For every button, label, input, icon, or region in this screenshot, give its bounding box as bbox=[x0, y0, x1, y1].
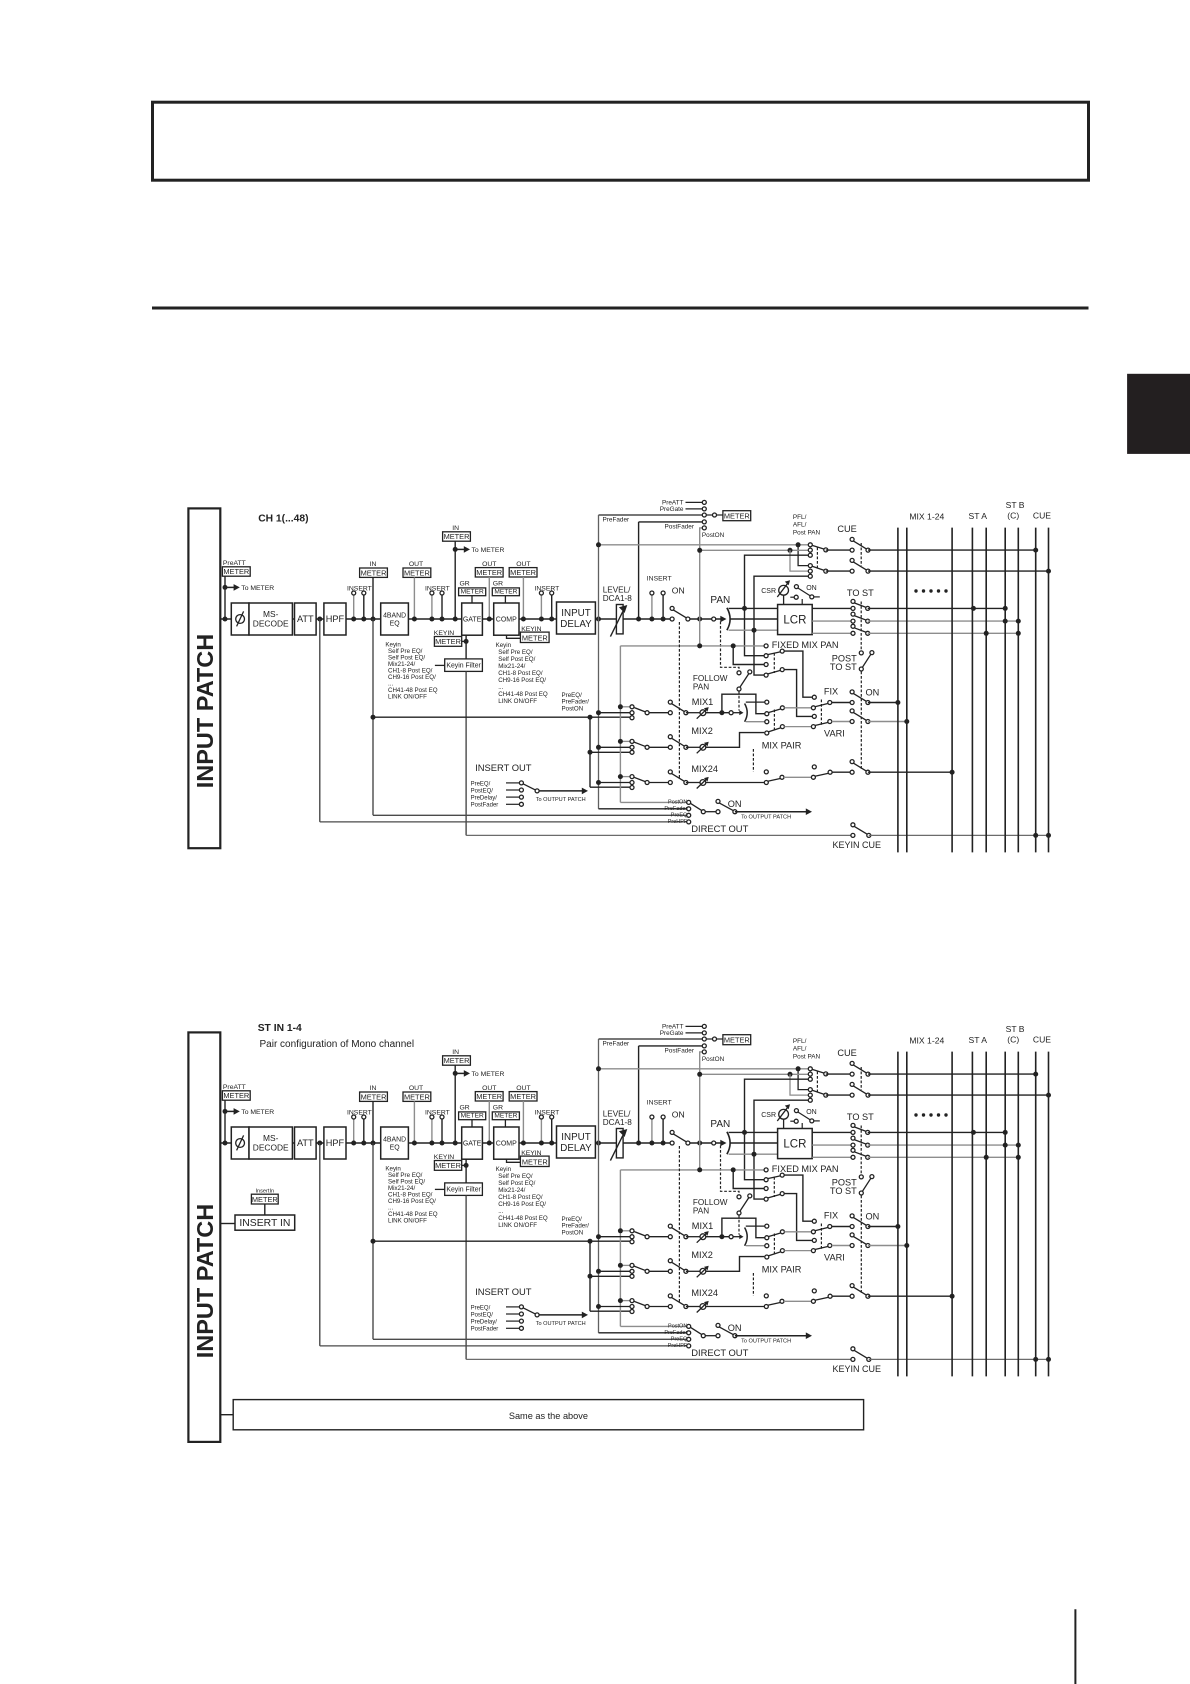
terminal fixed mix pan bbox=[764, 1168, 768, 1172]
meter box GR 1 bbox=[459, 588, 486, 596]
wire selector to meter bbox=[717, 514, 723, 516]
svg-text:PAN: PAN bbox=[693, 1206, 709, 1215]
gang dashed fmp bbox=[773, 653, 775, 673]
wire pregate lead bbox=[686, 1032, 703, 1034]
svg-text:MIX1: MIX1 bbox=[692, 1221, 713, 1231]
switch to-st C bbox=[854, 1140, 867, 1145]
svg-text:(C): (C) bbox=[1007, 1035, 1019, 1045]
svg-text:...: ... bbox=[498, 1208, 503, 1215]
svg-text:Self Pre EQ/: Self Pre EQ/ bbox=[498, 649, 533, 656]
junction comp-out bbox=[521, 617, 526, 622]
switch ON main bbox=[673, 610, 687, 618]
insert out leads bbox=[506, 782, 519, 784]
block HPF bbox=[324, 603, 346, 635]
block MS-DECODE bbox=[249, 603, 292, 635]
switch post-to-st bbox=[862, 1178, 871, 1191]
svg-text:To OUTPUT PATCH: To OUTPUT PATCH bbox=[741, 1339, 791, 1345]
gang dashed to-st bbox=[860, 1126, 862, 1175]
wire poston gray vert bbox=[619, 1170, 621, 1327]
svg-text:To OUTPUT PATCH: To OUTPUT PATCH bbox=[536, 1321, 586, 1327]
svg-text:ST B: ST B bbox=[1006, 500, 1025, 510]
svg-text:PreHPF: PreHPF bbox=[668, 1343, 688, 1349]
meter box OUT 1 bbox=[403, 568, 431, 577]
wire lcr on stub bbox=[801, 599, 803, 605]
selector insert out bbox=[523, 784, 536, 791]
block INPUT DELAY bbox=[557, 602, 596, 634]
switch CUE L bbox=[853, 1065, 867, 1073]
svg-text:CH1-8 Post EQ/: CH1-8 Post EQ/ bbox=[498, 1194, 543, 1201]
svg-text:ST IN 1-4: ST IN 1-4 bbox=[258, 1023, 302, 1034]
switch to-st R bbox=[854, 1152, 867, 1157]
selector MIX24 source bbox=[634, 777, 646, 782]
wire MIX24 to on bbox=[649, 782, 670, 784]
svg-text:IN: IN bbox=[452, 525, 459, 532]
svg-text:ON: ON bbox=[728, 1323, 742, 1333]
csr knob bbox=[779, 585, 789, 595]
meter box selector bbox=[723, 1035, 751, 1045]
switch to-st C bbox=[854, 616, 867, 621]
switch mix2 bus on bbox=[853, 1236, 867, 1244]
svg-text:PostON: PostON bbox=[668, 1323, 687, 1329]
wire gr2 stub bbox=[504, 596, 506, 603]
wire PreATT meter tap bbox=[224, 1100, 226, 1143]
wire mix2 bus out bbox=[868, 1245, 907, 1247]
switch mix follow B bbox=[768, 728, 781, 732]
wire mix1 to pan bbox=[706, 712, 729, 714]
gang dashed to-st bbox=[860, 602, 862, 651]
wire MIX2 to knob bbox=[686, 1270, 700, 1272]
svg-text:PAN: PAN bbox=[693, 682, 709, 691]
wire mix24 varifeed bbox=[784, 1300, 811, 1302]
wire MIX2 to on bbox=[649, 1270, 670, 1272]
svg-text:4BAND: 4BAND bbox=[383, 1137, 406, 1144]
svg-text:To OUTPUT PATCH: To OUTPUT PATCH bbox=[536, 797, 586, 803]
wire mix1 bypass bbox=[722, 694, 765, 714]
svg-text:IN: IN bbox=[370, 561, 377, 568]
svg-text:ON: ON bbox=[672, 1110, 685, 1120]
junction eq-out bbox=[412, 1141, 417, 1146]
wire MIX1 top feed bbox=[620, 1230, 630, 1232]
junction stBR bbox=[1016, 619, 1021, 624]
insert pair 4 bbox=[651, 1119, 653, 1143]
svg-text:FIXED MIX PAN: FIXED MIX PAN bbox=[772, 1164, 839, 1174]
wire preeq vert main bbox=[372, 619, 374, 815]
selector cue L bbox=[812, 545, 825, 549]
svg-text:DELAY: DELAY bbox=[560, 619, 592, 630]
wire PreATT meter tap bbox=[224, 576, 226, 619]
insert pair 3 bbox=[540, 595, 542, 619]
box same as above bbox=[233, 1400, 863, 1430]
wire poston feed direct bbox=[620, 1325, 686, 1327]
wire mix pan out L bbox=[746, 701, 765, 703]
svg-text:KEYIN CUE: KEYIN CUE bbox=[833, 840, 882, 850]
svg-text:INSERT: INSERT bbox=[347, 585, 372, 592]
block 4BAND EQ bbox=[381, 1127, 409, 1159]
switch MIX1 on-link bbox=[672, 704, 685, 712]
wire AFL line bbox=[700, 1073, 811, 1075]
switch ON main bbox=[673, 1134, 687, 1142]
junction stBR2 bbox=[1016, 631, 1021, 636]
junction preeq/mix2 bbox=[588, 1274, 593, 1279]
wire preeq feed mix24 bbox=[590, 1310, 630, 1312]
insert pair 1 bbox=[353, 1119, 355, 1143]
junction pan R tap bbox=[752, 628, 757, 633]
junction pfl drop bbox=[796, 542, 801, 547]
svg-text:CH41-48 Post EQ: CH41-48 Post EQ bbox=[498, 691, 548, 698]
wire prefader vert bbox=[598, 515, 600, 809]
svg-text:PostON: PostON bbox=[562, 705, 584, 712]
svg-text:MIX24: MIX24 bbox=[691, 764, 718, 774]
gang dashed mix pair bbox=[752, 1273, 754, 1296]
meter box OUT 3 bbox=[509, 1092, 537, 1101]
wire fmp B route bbox=[784, 670, 812, 717]
pan input circle bbox=[712, 617, 716, 621]
junction afl drop bbox=[788, 1072, 793, 1077]
wire preeq line direct bbox=[373, 1338, 687, 1340]
wire MIX1 mid feed bbox=[599, 1236, 631, 1238]
pan arc bbox=[727, 608, 730, 630]
wire preeq vert branch bbox=[589, 717, 591, 787]
svg-text:METER: METER bbox=[223, 567, 249, 576]
svg-text:IN: IN bbox=[370, 1085, 377, 1092]
wire prefader vert bbox=[598, 1039, 600, 1333]
bus lines MIX/ST/CUE bbox=[897, 1052, 899, 1377]
junction stBL2 bbox=[1003, 619, 1008, 624]
junction gate-out bbox=[487, 1141, 492, 1146]
insert out leads bbox=[506, 1306, 519, 1308]
svg-text:ON: ON bbox=[866, 687, 880, 697]
wire lcr out C bbox=[812, 1144, 853, 1146]
input patch box (ST IN) bbox=[188, 1032, 220, 1442]
block COMP bbox=[494, 1127, 519, 1159]
svg-text:ON: ON bbox=[728, 799, 742, 809]
block LCR bbox=[778, 1129, 813, 1159]
wire cueL out bbox=[868, 549, 1036, 551]
wire OUT1 meter tap bbox=[413, 1101, 415, 1143]
wire preeq line direct bbox=[373, 814, 687, 816]
junction mix1 bus bbox=[895, 700, 900, 705]
switch keyin cue bbox=[854, 826, 868, 834]
wire pan out L bbox=[729, 607, 778, 609]
svg-text:INSERT: INSERT bbox=[425, 1109, 450, 1116]
switch follow pan bbox=[740, 674, 749, 688]
svg-text:PreEQ/: PreEQ/ bbox=[471, 781, 491, 787]
junction stBR bbox=[1016, 1143, 1021, 1148]
wire MIX24 to on bbox=[649, 1306, 670, 1308]
meter box GR 1 bbox=[459, 1112, 486, 1120]
junction fmp/poston bbox=[697, 643, 702, 648]
gang dashed mix follow bbox=[773, 1234, 775, 1256]
switch CUE R bbox=[853, 1086, 867, 1094]
svg-text:INSERT: INSERT bbox=[535, 585, 560, 592]
svg-text:4BAND: 4BAND bbox=[383, 613, 406, 620]
svg-text:PreDelay/: PreDelay/ bbox=[471, 1320, 498, 1326]
svg-text:To METER: To METER bbox=[241, 1109, 274, 1116]
wire preatt lead bbox=[686, 1025, 703, 1027]
switch CUE L bbox=[853, 541, 867, 549]
wire mix pan out L bbox=[746, 1225, 765, 1227]
block MS-DECODE bbox=[249, 1127, 292, 1159]
wire direct to on bbox=[705, 1335, 716, 1337]
insert pair 2 bbox=[431, 595, 433, 619]
svg-text:METER: METER bbox=[361, 1092, 387, 1101]
top rounded box bbox=[153, 102, 1089, 180]
svg-text:METER: METER bbox=[522, 633, 548, 642]
insert pair 2 bbox=[431, 1119, 433, 1143]
svg-text:METER: METER bbox=[223, 1091, 249, 1100]
wire MIX2 top feed bbox=[620, 740, 630, 742]
wire OUT3 meter tap bbox=[522, 577, 524, 619]
wire OUT2 meter tap bbox=[488, 577, 490, 619]
switch MIX2 on-link bbox=[672, 738, 685, 746]
gang dashed cue sw bbox=[860, 1067, 862, 1090]
wire IN1 meter tap bbox=[372, 577, 374, 619]
junction gate-out bbox=[487, 617, 492, 622]
switch fmp B bbox=[768, 1194, 781, 1198]
junction to-meter bbox=[223, 585, 228, 590]
svg-text:LCR: LCR bbox=[783, 1139, 806, 1151]
svg-text:METER: METER bbox=[444, 1056, 470, 1065]
wire MIX24 to knob bbox=[686, 1306, 700, 1308]
junction pre-fader bbox=[596, 1141, 601, 1146]
wire prehpf line bbox=[320, 1345, 687, 1347]
wire MIX1 to on bbox=[649, 1236, 670, 1238]
wire preeq line mix1 bbox=[373, 716, 630, 718]
junction cueR bus bbox=[1046, 1093, 1051, 1098]
wire mix2 to on bbox=[832, 1245, 852, 1247]
wire keyin cue line bbox=[466, 834, 853, 836]
wire pan out C bbox=[730, 1142, 778, 1144]
junction preeq/mix1 bbox=[371, 1239, 376, 1244]
junction fmp/poston bbox=[697, 1167, 702, 1172]
svg-text:PostEQ/: PostEQ/ bbox=[471, 789, 494, 795]
svg-text:TO ST: TO ST bbox=[830, 662, 857, 672]
meter box OUT 3 bbox=[509, 568, 537, 577]
meter box KEYIN 1 bbox=[434, 637, 461, 647]
junction pan L tap bbox=[742, 1130, 747, 1135]
block LCR bbox=[778, 605, 813, 635]
junction post-on bbox=[697, 617, 702, 622]
arrow insert out bbox=[539, 1314, 582, 1316]
svg-text:PreHPF: PreHPF bbox=[668, 819, 688, 825]
wire postpan L feed bbox=[745, 1079, 811, 1180]
knob MIX24 level bbox=[700, 780, 706, 786]
wire post-fader tap bbox=[638, 1046, 640, 1143]
svg-text:To METER: To METER bbox=[472, 547, 505, 554]
wire mix24 to switch bbox=[706, 1306, 765, 1308]
wire to-st R out bbox=[868, 1156, 1019, 1158]
wire preeq feed mix24 bbox=[590, 786, 630, 788]
junction stAR bbox=[984, 631, 989, 636]
selector insert out bbox=[523, 1308, 536, 1315]
wire mix1 bus out bbox=[868, 702, 898, 704]
wire MIX2 to on bbox=[649, 746, 670, 748]
svg-text:METER: METER bbox=[724, 512, 750, 521]
wire gr2 stub bbox=[504, 1120, 506, 1127]
svg-text:HPF: HPF bbox=[326, 1138, 345, 1148]
svg-text:METER: METER bbox=[494, 589, 517, 596]
wire post-on tap bbox=[700, 528, 705, 646]
selector cue R bbox=[812, 566, 825, 570]
junction mix1 split bbox=[719, 710, 724, 715]
mix1 pan circle bbox=[729, 1235, 733, 1239]
svg-text:PostEQ/: PostEQ/ bbox=[471, 1313, 494, 1319]
junction main/preatt bbox=[223, 617, 228, 622]
svg-text:INSERT OUT: INSERT OUT bbox=[475, 762, 532, 773]
wire lcr on stub bbox=[801, 1123, 803, 1129]
meter box IN 1 bbox=[360, 1092, 388, 1101]
svg-text:METER: METER bbox=[522, 1157, 548, 1166]
svg-text:ON: ON bbox=[806, 585, 817, 592]
wire fmp drop 2 bbox=[733, 1170, 764, 1189]
mix pan arc bbox=[745, 1228, 748, 1246]
wire varifeed 2 bbox=[784, 1250, 811, 1252]
wire prehpf line bbox=[320, 821, 687, 823]
horizontal rule bbox=[152, 307, 1089, 310]
wire mix1 to on bbox=[832, 702, 852, 704]
wire MIX2 top feed bbox=[620, 1264, 630, 1266]
wire mix2 bus out bbox=[868, 721, 907, 723]
svg-text:EQ: EQ bbox=[390, 1144, 401, 1151]
svg-text:To METER: To METER bbox=[472, 1071, 505, 1078]
wire MIX1 top feed bbox=[620, 706, 630, 708]
meter box IN 2 bbox=[443, 532, 471, 541]
svg-text:PreGate: PreGate bbox=[660, 506, 684, 513]
wire prefader line bbox=[599, 514, 703, 516]
fader bbox=[616, 605, 623, 634]
selector MIX2 source bbox=[634, 742, 646, 747]
knob MIX2 level bbox=[700, 744, 706, 750]
arrow into pan bbox=[716, 618, 721, 620]
gang dashed mix on bbox=[678, 1146, 680, 1303]
wire postfader line bbox=[639, 1045, 703, 1047]
switch mix1 bus on bbox=[853, 693, 867, 701]
wire keyin cue out bbox=[869, 1358, 1049, 1360]
insert pair 3 bbox=[540, 1119, 542, 1143]
switch mix follow A bbox=[768, 709, 781, 713]
svg-text:LINK ON/OFF: LINK ON/OFF bbox=[498, 1222, 537, 1229]
wire afl drop bbox=[790, 550, 808, 571]
wire pan out C bbox=[730, 618, 778, 620]
wire MIX1 to knob bbox=[686, 712, 700, 714]
block ATT bbox=[295, 603, 317, 635]
svg-text:DCA1-8: DCA1-8 bbox=[603, 1118, 633, 1127]
svg-text:MIX1: MIX1 bbox=[692, 697, 713, 707]
svg-text:Post PAN: Post PAN bbox=[793, 1053, 821, 1060]
svg-text:CUE: CUE bbox=[837, 524, 856, 534]
wire csr stub bbox=[783, 1119, 785, 1128]
svg-text:METER: METER bbox=[461, 1113, 484, 1120]
meter box IN 1 bbox=[360, 568, 388, 577]
wire MIX1 to knob bbox=[686, 1236, 700, 1238]
svg-text:PFL/: PFL/ bbox=[793, 514, 807, 521]
wire selector to meter bbox=[717, 1038, 723, 1040]
svg-text:MIX PAIR: MIX PAIR bbox=[762, 1264, 802, 1274]
wire prehpf vert bbox=[319, 1143, 321, 1346]
svg-text:INSERT OUT: INSERT OUT bbox=[475, 1286, 532, 1297]
junction to-meter 2 bbox=[453, 547, 458, 552]
gang dashed below post-to-st bbox=[860, 1196, 862, 1294]
svg-text:MIX 1-24: MIX 1-24 bbox=[909, 512, 944, 522]
wire gr1 stub bbox=[471, 596, 473, 603]
junction pre-fader bbox=[596, 617, 601, 622]
svg-text:PreFader: PreFader bbox=[664, 806, 687, 812]
svg-text:GR: GR bbox=[460, 1105, 470, 1112]
wire lcr out R bbox=[812, 1156, 853, 1158]
svg-text:METER: METER bbox=[510, 568, 536, 577]
block 4BAND EQ bbox=[381, 603, 409, 635]
wire pregate lead bbox=[686, 508, 703, 510]
switch direct on bbox=[719, 1327, 734, 1335]
svg-text:PreFader: PreFader bbox=[603, 516, 631, 523]
switch fix-vari 2 bbox=[815, 1246, 828, 1249]
junction prefader/pfl bbox=[596, 1066, 601, 1071]
svg-text:Self Post EQ/: Self Post EQ/ bbox=[498, 1180, 535, 1187]
svg-text:PreFader: PreFader bbox=[603, 1040, 631, 1047]
svg-text:Same as the above: Same as the above bbox=[509, 1411, 588, 1421]
svg-text:DECODE: DECODE bbox=[253, 1143, 289, 1153]
meter box PreATT bbox=[222, 567, 250, 576]
wire main line bbox=[220, 1142, 231, 1144]
svg-text:ON: ON bbox=[672, 586, 685, 596]
input patch box (CH) bbox=[188, 508, 220, 848]
wire varifeed 1 bbox=[784, 707, 811, 709]
junction preeq branch bbox=[588, 1239, 593, 1244]
meter box IN 2 bbox=[443, 1056, 471, 1065]
svg-text:PFL/: PFL/ bbox=[793, 1038, 807, 1045]
svg-text:INSERT IN: INSERT IN bbox=[239, 1218, 290, 1229]
mix pan arc bbox=[745, 704, 748, 722]
svg-text:GR: GR bbox=[460, 581, 470, 588]
junction pre-HPF bbox=[317, 617, 322, 622]
wire lcr out C bbox=[812, 620, 853, 622]
junction fmp drop bbox=[731, 643, 736, 648]
wire AFL line bbox=[700, 549, 811, 551]
svg-text:METER: METER bbox=[461, 589, 484, 596]
wire pfl drop bbox=[798, 545, 808, 566]
pan input circle bbox=[712, 1141, 716, 1145]
junction main/preatt bbox=[223, 1141, 228, 1146]
pan dashed control bbox=[721, 622, 740, 671]
svg-text:METER: METER bbox=[476, 568, 502, 577]
wire mix24 to switch bbox=[706, 782, 765, 784]
junction pre-EQ bbox=[371, 1141, 376, 1146]
svg-text:PAN: PAN bbox=[710, 595, 730, 606]
wire postpan R feed bbox=[754, 576, 810, 675]
gang dashed cue sel bbox=[816, 548, 818, 569]
wire OUT1 meter tap bbox=[413, 577, 415, 619]
switch mix2 bus on bbox=[853, 712, 867, 720]
wire mix24 varifeed bbox=[784, 776, 811, 778]
svg-text:To METER: To METER bbox=[241, 585, 274, 592]
switch mix follow A bbox=[768, 1233, 781, 1237]
wire preeq line mix1 bbox=[373, 1240, 630, 1242]
junction preeq/mix2 bbox=[588, 750, 593, 755]
junction stAL bbox=[971, 1130, 976, 1135]
wire MIX24 mid feed bbox=[599, 782, 631, 784]
junction kc cueL bbox=[1033, 1357, 1038, 1362]
junction stBL bbox=[1003, 606, 1008, 611]
junction pfl drop bbox=[796, 1066, 801, 1071]
wire csr stub bbox=[783, 595, 785, 604]
junction stAR bbox=[984, 1155, 989, 1160]
switch follow pan bbox=[740, 1198, 749, 1212]
svg-text:VARI: VARI bbox=[824, 729, 845, 739]
meter box OUT 2 bbox=[475, 1092, 503, 1101]
svg-text:PostFader: PostFader bbox=[665, 523, 695, 530]
wire preeq feed mix2 bbox=[590, 751, 630, 753]
bus continuation dots bbox=[914, 1113, 917, 1116]
